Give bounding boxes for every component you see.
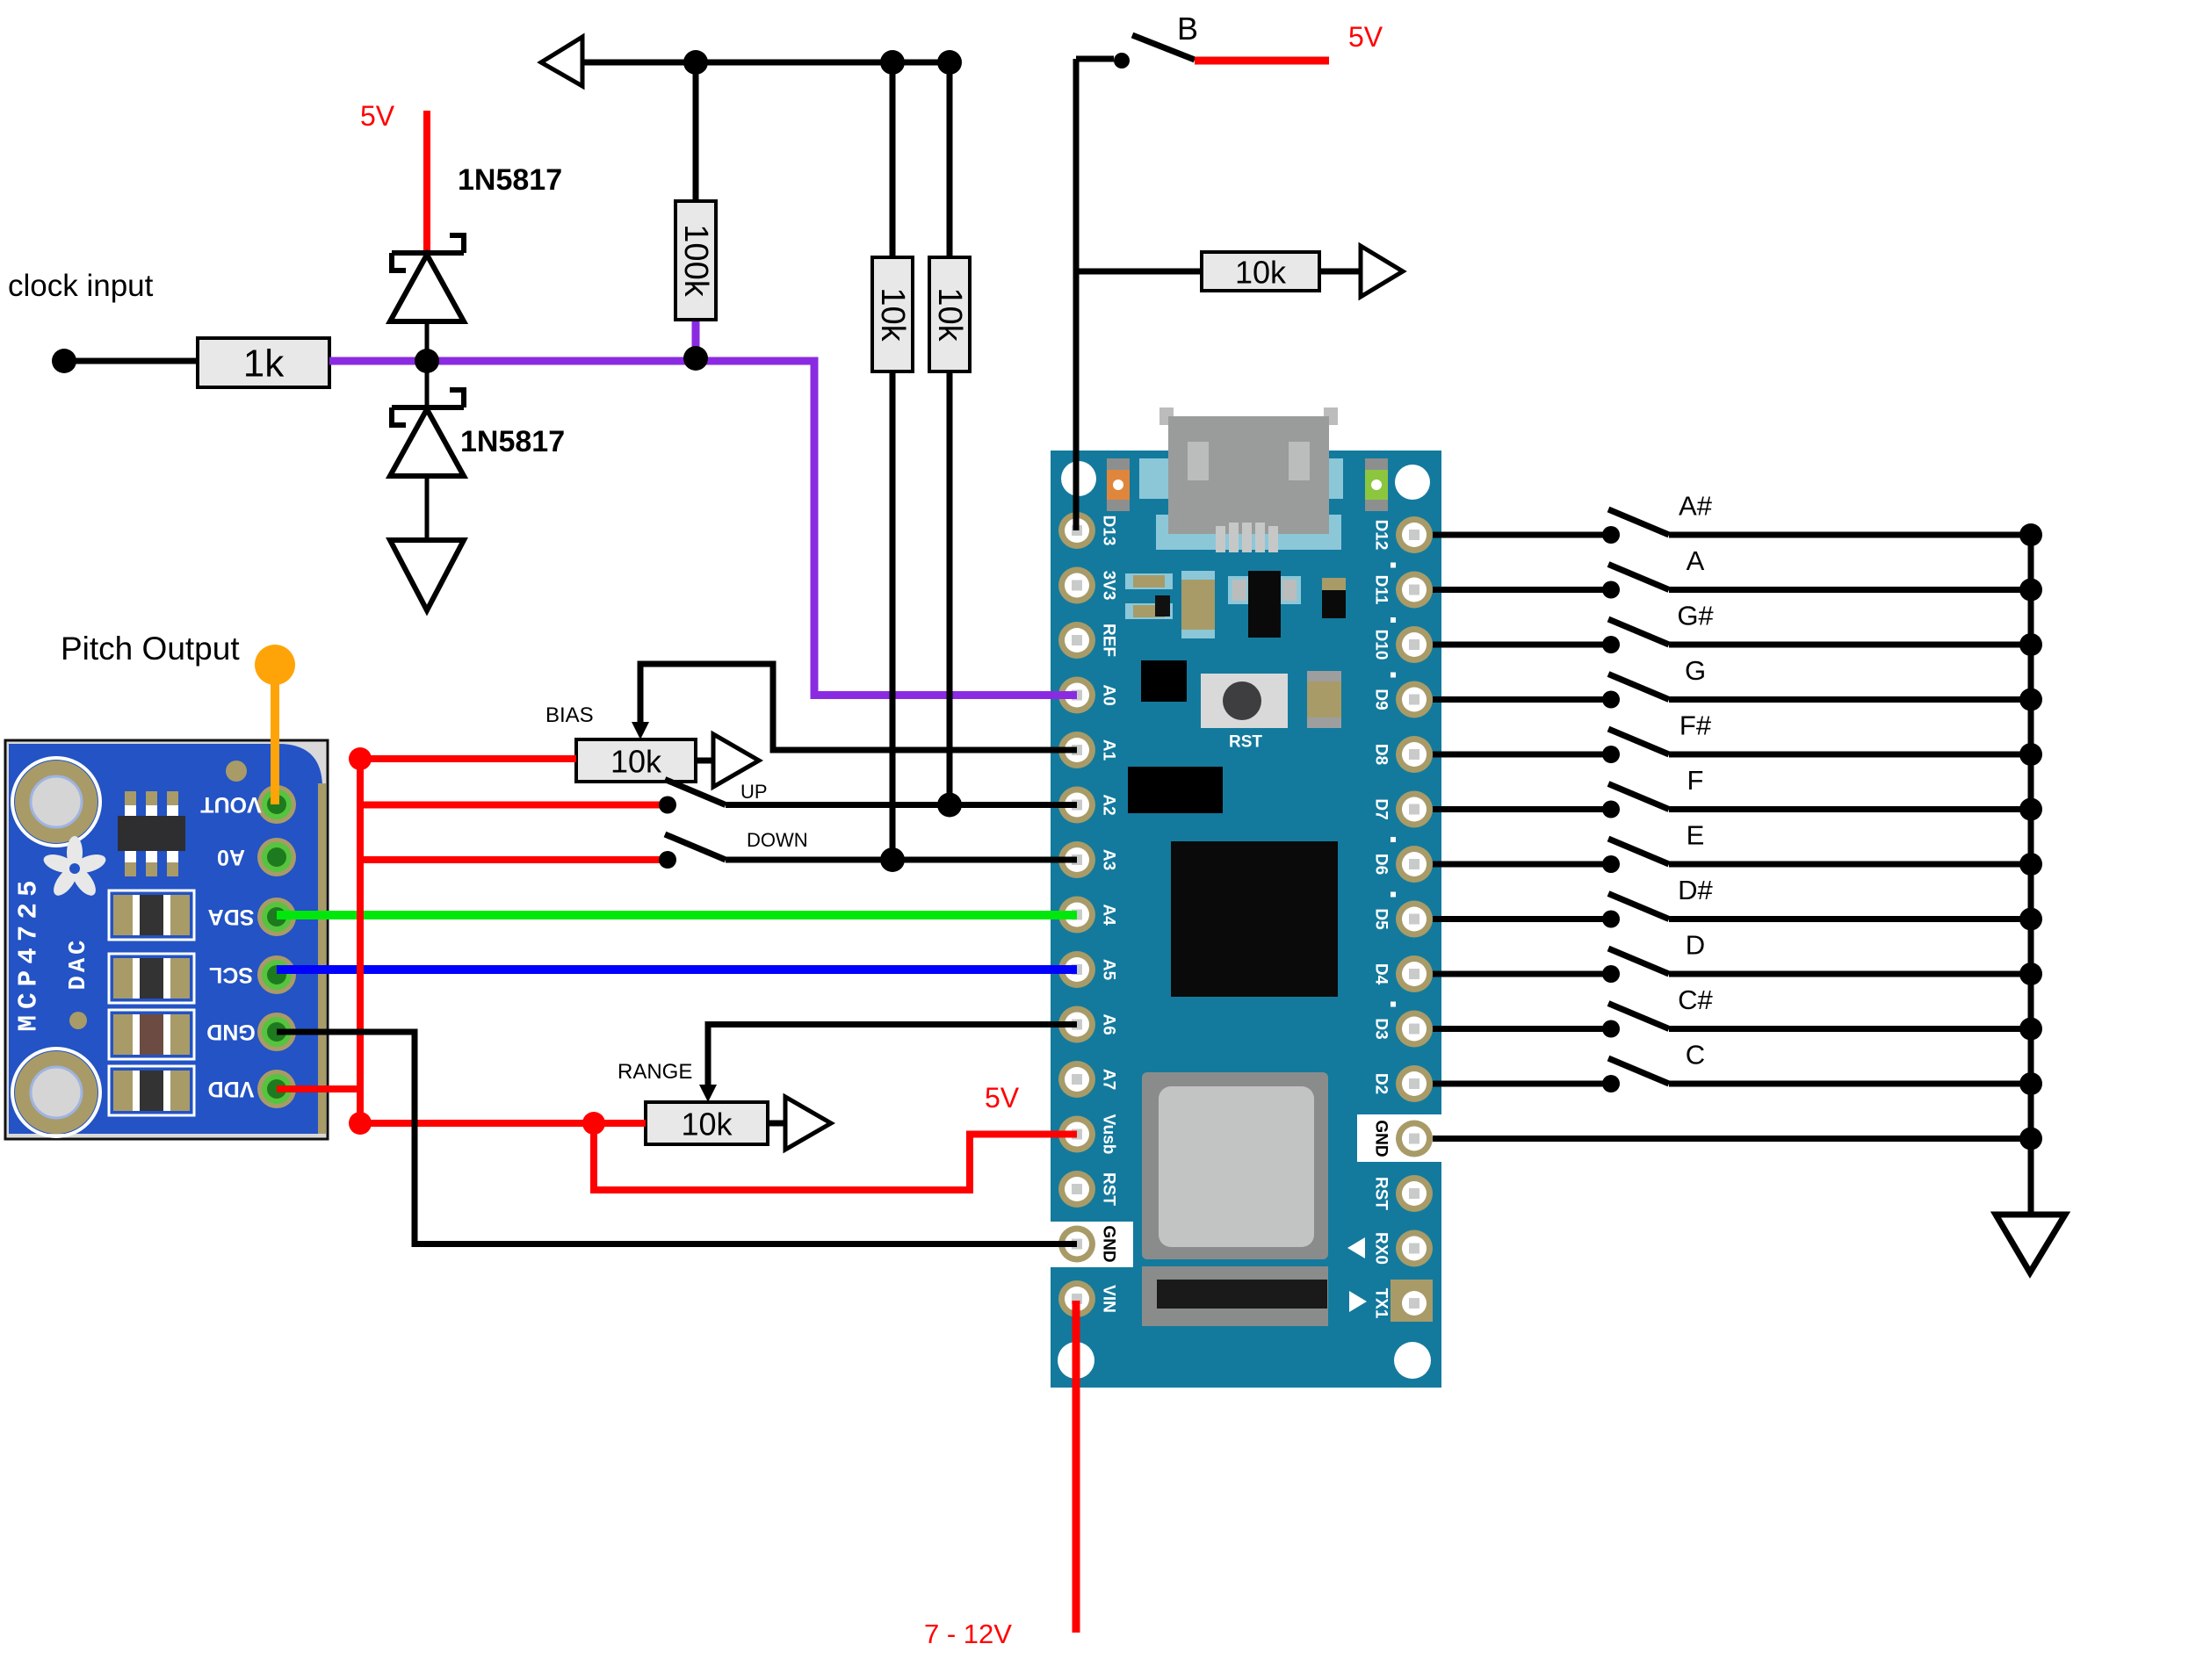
svg-text:A7: A7	[1100, 1069, 1118, 1090]
svg-text:E: E	[1687, 820, 1705, 851]
svg-text:A4: A4	[1100, 904, 1118, 926]
svg-text:REF: REF	[1100, 624, 1118, 657]
svg-text:Pitch Output: Pitch Output	[61, 631, 240, 667]
svg-text:10k: 10k	[610, 744, 662, 780]
svg-text:D2: D2	[1372, 1073, 1391, 1094]
svg-text:GND: GND	[206, 1020, 256, 1044]
svg-text:DOWN: DOWN	[747, 829, 808, 851]
svg-text:DAC: DAC	[66, 937, 92, 991]
svg-text:A2: A2	[1100, 794, 1118, 815]
svg-text:D#: D#	[1678, 875, 1713, 905]
svg-text:5V: 5V	[1348, 21, 1383, 53]
svg-text:GND: GND	[1100, 1225, 1118, 1262]
svg-text:5V: 5V	[360, 100, 395, 132]
svg-text:G: G	[1685, 655, 1706, 686]
svg-text:BIAS: BIAS	[545, 703, 594, 727]
svg-text:5V: 5V	[985, 1082, 1020, 1114]
svg-text:1N5817: 1N5817	[460, 425, 565, 458]
svg-text:VOUT: VOUT	[200, 792, 261, 817]
svg-text:RANGE: RANGE	[618, 1060, 692, 1084]
svg-text:clock input: clock input	[8, 269, 154, 303]
svg-text:A1: A1	[1100, 739, 1118, 761]
svg-text:RST: RST	[1372, 1177, 1391, 1210]
svg-text:TX1: TX1	[1372, 1288, 1391, 1319]
svg-text:A#: A#	[1679, 491, 1713, 522]
svg-text:D6: D6	[1372, 854, 1391, 875]
svg-text:7 - 12V: 7 - 12V	[924, 1619, 1012, 1649]
svg-text:GND: GND	[1372, 1120, 1391, 1157]
svg-text:A: A	[1687, 545, 1705, 576]
svg-text:D: D	[1686, 930, 1705, 961]
svg-text:10k: 10k	[681, 1107, 733, 1143]
svg-text:D5: D5	[1372, 908, 1391, 930]
svg-text:SCL: SCL	[209, 963, 253, 987]
svg-text:VIN: VIN	[1100, 1285, 1118, 1313]
svg-text:3V3: 3V3	[1100, 571, 1118, 601]
svg-text:10k: 10k	[1235, 255, 1287, 291]
svg-text:D9: D9	[1372, 689, 1391, 710]
svg-text:A0: A0	[217, 845, 245, 869]
svg-text:D3: D3	[1372, 1018, 1391, 1039]
svg-text:D8: D8	[1372, 744, 1391, 765]
svg-text:SDA: SDA	[208, 905, 255, 929]
svg-text:D7: D7	[1372, 798, 1391, 819]
svg-text:Vusb: Vusb	[1100, 1114, 1118, 1155]
svg-text:D13: D13	[1100, 516, 1118, 546]
svg-text:MCP4725: MCP4725	[14, 874, 45, 1031]
svg-text:RST: RST	[1229, 733, 1262, 752]
svg-text:1k: 1k	[243, 342, 285, 386]
svg-text:F: F	[1687, 765, 1704, 796]
svg-text:10k: 10k	[874, 287, 911, 342]
svg-text:C: C	[1686, 1040, 1705, 1071]
svg-text:G#: G#	[1677, 601, 1714, 631]
svg-text:D11: D11	[1372, 575, 1391, 605]
svg-text:C#: C#	[1678, 984, 1713, 1015]
svg-text:1N5817: 1N5817	[458, 163, 562, 197]
svg-text:A3: A3	[1100, 849, 1118, 870]
svg-text:RX0: RX0	[1372, 1232, 1391, 1265]
svg-text:A6: A6	[1100, 1013, 1118, 1035]
svg-text:A5: A5	[1100, 959, 1118, 981]
svg-text:100k: 100k	[677, 224, 714, 297]
svg-text:D10: D10	[1372, 630, 1391, 660]
svg-text:10k: 10k	[931, 287, 968, 342]
svg-text:F#: F#	[1680, 710, 1712, 741]
svg-text:D12: D12	[1372, 520, 1391, 551]
svg-text:UP: UP	[740, 781, 768, 803]
svg-text:RST: RST	[1100, 1172, 1118, 1206]
svg-text:D4: D4	[1372, 963, 1391, 985]
svg-text:VDD: VDD	[208, 1077, 255, 1101]
svg-text:B: B	[1177, 11, 1198, 47]
svg-text:A0: A0	[1100, 684, 1118, 705]
